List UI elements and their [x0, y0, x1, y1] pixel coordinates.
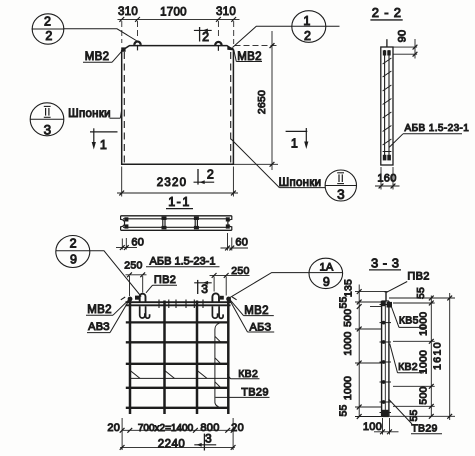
svg-text:1000: 1000	[418, 350, 430, 374]
svg-text:3: 3	[205, 432, 212, 446]
svg-text:2240: 2240	[158, 438, 186, 450]
svg-text:1000: 1000	[342, 376, 354, 400]
svg-text:1000: 1000	[418, 312, 430, 336]
svg-text:90: 90	[397, 30, 409, 43]
svg-text:3: 3	[201, 282, 208, 296]
svg-text:ТВ29: ТВ29	[241, 387, 269, 399]
svg-text:55: 55	[408, 409, 420, 421]
svg-text:9: 9	[70, 253, 77, 267]
svg-text:60: 60	[235, 237, 248, 249]
svg-text:2: 2	[304, 29, 311, 43]
svg-text:160: 160	[377, 173, 396, 185]
svg-text:1: 1	[291, 137, 298, 151]
svg-text:310: 310	[118, 6, 138, 18]
svg-text:3: 3	[337, 187, 345, 202]
svg-text:55: 55	[415, 287, 427, 299]
svg-text:КВ2: КВ2	[238, 368, 258, 380]
svg-text:1000: 1000	[342, 331, 354, 355]
svg-text:2 - 2: 2 - 2	[372, 5, 402, 20]
svg-text:2: 2	[207, 168, 214, 182]
svg-text:60: 60	[131, 236, 144, 248]
svg-text:20: 20	[107, 422, 120, 434]
svg-text:310: 310	[216, 6, 236, 18]
svg-text:КВ2: КВ2	[398, 361, 418, 373]
svg-text:Шпонки: Шпонки	[279, 177, 322, 189]
svg-text:ПВ2: ПВ2	[154, 274, 176, 286]
svg-text:АВЗ: АВЗ	[88, 321, 110, 333]
svg-text:1А: 1А	[319, 261, 333, 273]
svg-text:2650: 2650	[256, 90, 268, 114]
svg-text:АБВ 1.5-23-1: АБВ 1.5-23-1	[150, 256, 216, 268]
svg-text:МВ2: МВ2	[87, 304, 112, 316]
svg-text:500: 500	[418, 386, 430, 404]
svg-text:1610: 1610	[432, 341, 444, 370]
svg-text:ТВ29: ТВ29	[411, 423, 437, 435]
svg-text:2: 2	[70, 236, 77, 250]
svg-text:55: 55	[338, 296, 350, 308]
svg-text:1700: 1700	[160, 7, 187, 19]
svg-text:500: 500	[342, 309, 354, 327]
svg-text:МВ2: МВ2	[85, 51, 110, 63]
svg-text:700х2=1400: 700х2=1400	[138, 423, 194, 434]
svg-text:55: 55	[338, 404, 350, 416]
svg-text:3 - 3: 3 - 3	[371, 255, 400, 270]
svg-text:ПВ2: ПВ2	[407, 271, 429, 283]
svg-text:2: 2	[45, 29, 52, 43]
svg-text:КВ5: КВ5	[399, 315, 419, 327]
svg-text:3: 3	[44, 123, 52, 138]
svg-text:2: 2	[202, 30, 209, 44]
svg-text:250: 250	[124, 260, 142, 272]
svg-text:1: 1	[303, 14, 310, 28]
svg-text:9: 9	[323, 275, 330, 289]
svg-text:Шпонки: Шпонки	[68, 108, 111, 120]
svg-text:100: 100	[363, 421, 382, 433]
svg-text:АБВ 1.5-23-1: АБВ 1.5-23-1	[405, 123, 470, 134]
svg-text:135: 135	[343, 279, 355, 297]
svg-text:20: 20	[231, 422, 244, 434]
svg-text:1: 1	[100, 138, 107, 152]
svg-text:2: 2	[44, 14, 51, 28]
svg-text:1-1: 1-1	[168, 195, 191, 209]
svg-text:2320: 2320	[157, 177, 187, 189]
